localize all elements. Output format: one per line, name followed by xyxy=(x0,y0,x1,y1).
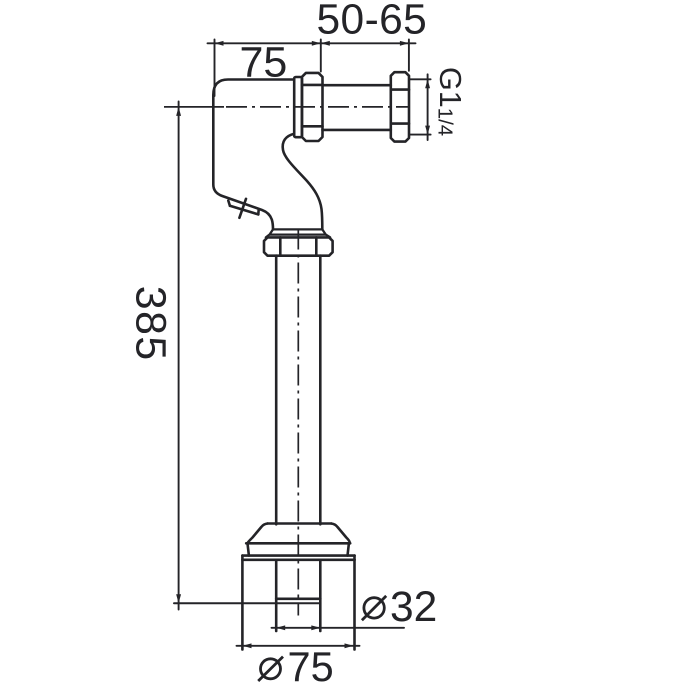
cylinder right wall xyxy=(353,556,356,650)
washer at elbow outlet xyxy=(294,77,302,137)
hex nut right (horizontal pipe) xyxy=(391,72,409,141)
hex nut top of vertical pipe xyxy=(264,237,333,255)
arrowheads diameter 32 xyxy=(276,625,285,630)
arrowheads top dimension xyxy=(215,41,224,46)
dimension line diameter 75 xyxy=(237,645,360,647)
side stub break tick xyxy=(239,199,246,218)
elbow body outline xyxy=(213,80,294,230)
svg-text:32: 32 xyxy=(390,584,437,631)
arrowheads 385 xyxy=(176,107,181,116)
bell left flare xyxy=(247,524,267,544)
arrowheads G1 1/4 xyxy=(425,79,430,88)
horizontal centerline solid part xyxy=(164,106,224,108)
bell band right side xyxy=(348,543,349,555)
dimension line 50-65 and 75 xyxy=(208,42,416,44)
diameter symbol of 75 xyxy=(258,657,283,681)
cylinder top edge xyxy=(242,554,354,557)
bell base line xyxy=(246,542,350,545)
cylinder chamfer line xyxy=(242,558,354,561)
bell shoulder top xyxy=(268,522,332,525)
side stub right end xyxy=(257,209,260,214)
extension lines G1 1/4 xyxy=(410,79,431,134)
extension line bottom of 385 xyxy=(174,602,320,604)
right nut facet lines xyxy=(391,90,409,124)
dimension line 385 xyxy=(178,102,180,610)
cylinder left wall xyxy=(241,556,244,650)
elbow right S-curve xyxy=(283,134,323,230)
inner pipe right wall in cylinder xyxy=(319,560,322,631)
svg-text:75: 75 xyxy=(240,38,288,86)
side stub left end xyxy=(228,201,230,206)
vertical pipe left wall xyxy=(275,256,278,525)
vertical pipe right wall xyxy=(319,256,322,525)
hex nut left (horizontal pipe) xyxy=(302,73,323,141)
extension line left (75) xyxy=(214,40,216,97)
extension line middle xyxy=(320,40,322,72)
bell band left side xyxy=(248,543,249,555)
arrowheads diameter 75 xyxy=(243,643,252,648)
extension line right (50-65) xyxy=(408,40,410,71)
svg-text:G11/4: G11/4 xyxy=(433,67,467,136)
bell right flare xyxy=(331,524,349,544)
tube between nuts xyxy=(323,85,391,130)
diameter symbol of 32 xyxy=(362,596,386,620)
horizontal centerline dash-dot xyxy=(226,106,410,108)
svg-text:50-65: 50-65 xyxy=(317,0,428,43)
dimension line diameter 32 xyxy=(272,627,405,629)
pipe end line xyxy=(276,597,320,600)
elbow skirt xyxy=(266,229,330,237)
vertical centerline dash-dot xyxy=(297,229,299,616)
left nut facet lines xyxy=(302,85,323,126)
svg-text:75: 75 xyxy=(288,643,334,690)
svg-text:385: 385 xyxy=(126,286,174,362)
side stub bottom wall xyxy=(230,206,258,215)
top nut facet lines xyxy=(280,237,316,255)
inner pipe left wall in cylinder xyxy=(275,560,278,631)
dimension line G1 1/4 xyxy=(427,74,429,140)
